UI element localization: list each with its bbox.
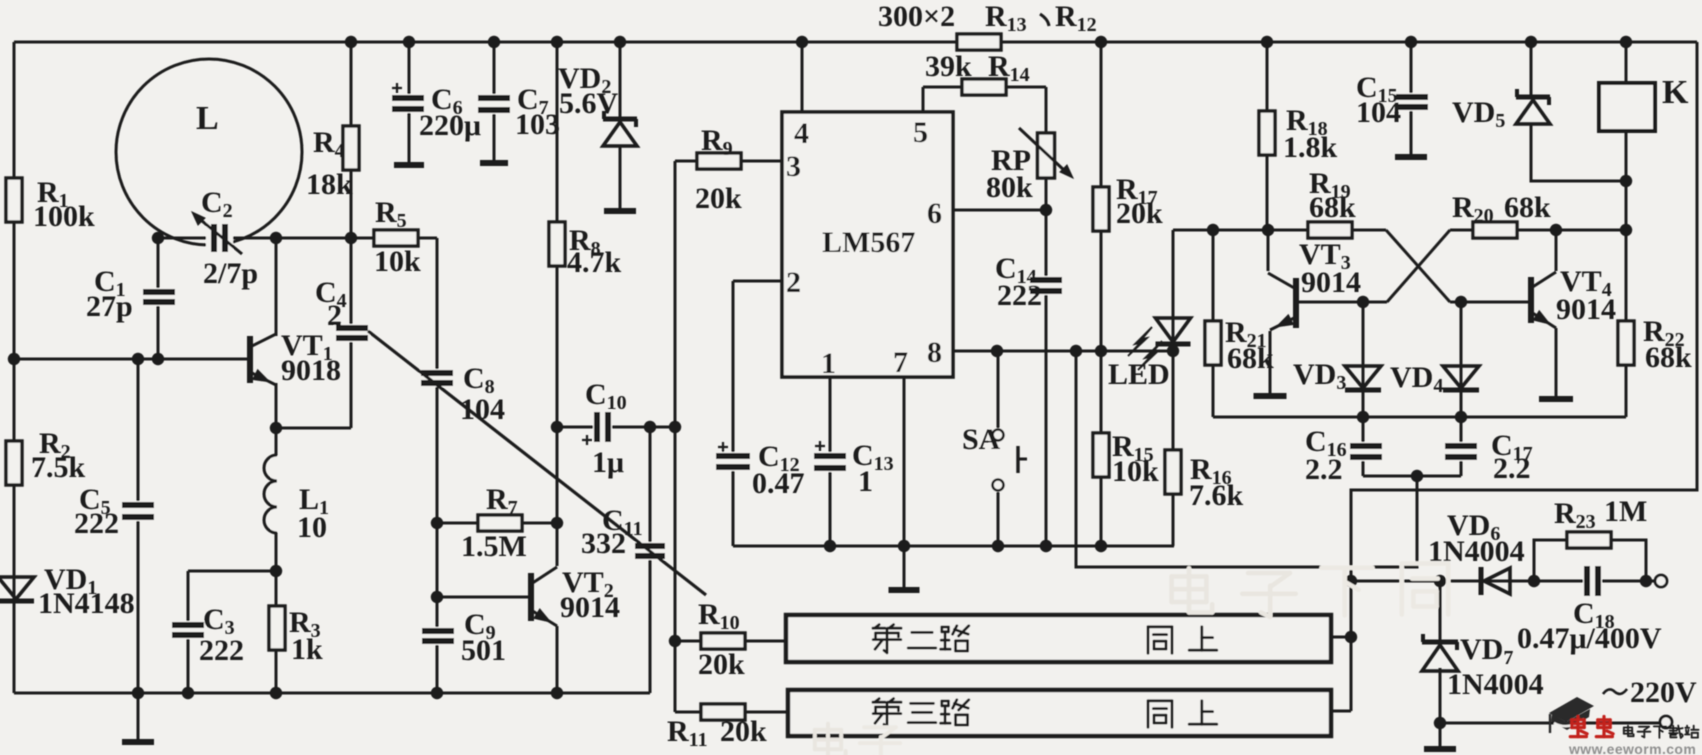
junction (1101,546) <box>1095 540 1107 552</box>
junction (158,359) <box>152 353 164 365</box>
wire pin8 line <box>953 350 1173 353</box>
diode VD3 <box>1345 366 1381 388</box>
wire VT3 collector riser <box>1267 230 1270 271</box>
svg-text:9014: 9014 <box>560 591 620 624</box>
svg-text:1: 1 <box>821 347 836 380</box>
junction (1046,210) <box>1040 204 1052 216</box>
svg-text:R12: R12 <box>1055 0 1097 36</box>
junction top rail x=1101 <box>1095 36 1107 48</box>
svg-text:222: 222 <box>199 634 244 667</box>
wire R4 C4 column <box>350 42 353 238</box>
svg-text:VD4: VD4 <box>1390 361 1443 397</box>
wire right edge return <box>1351 42 1697 711</box>
svg-text:0.47μ/400V: 0.47μ/400V <box>1517 622 1662 655</box>
wire C1 branch <box>157 238 160 359</box>
long gang line <box>368 331 706 595</box>
svg-text:SA: SA <box>962 423 1001 456</box>
svg-text:7.6k: 7.6k <box>1189 479 1244 512</box>
capacitor C13 electrolytic <box>812 452 848 472</box>
capacitor C5 <box>120 501 156 521</box>
capacitor C8 <box>419 369 455 387</box>
junction top rail x=620 <box>614 36 626 48</box>
junction (138,359) <box>132 353 144 365</box>
svg-text:5.6V: 5.6V <box>559 87 619 120</box>
capacitor C17 <box>1443 442 1479 461</box>
wire C17 drop <box>1460 417 1463 476</box>
ground VD7 <box>1424 746 1456 752</box>
junction (1101,351) <box>1095 345 1107 357</box>
resistor R7 <box>478 515 522 531</box>
svg-text:300×2: 300×2 <box>878 0 955 33</box>
junction (276,428) <box>270 422 282 434</box>
resistor R2 <box>6 441 22 485</box>
resistor R13 <box>957 34 1001 50</box>
junction (557,693) <box>551 687 563 699</box>
ic LM567 U1 <box>782 112 953 377</box>
wire pin2 to C12 <box>733 280 782 283</box>
capacitor C14 <box>1028 276 1064 295</box>
svg-text:VD5: VD5 <box>1452 96 1505 132</box>
svg-text:100k: 100k <box>33 200 95 233</box>
resistor R19 <box>1308 222 1352 238</box>
wire box2 stub <box>1331 636 1351 639</box>
junction top rail x=1626 <box>1620 36 1632 48</box>
wire pin1 to C13 <box>829 377 832 546</box>
svg-text:9018: 9018 <box>281 354 341 387</box>
svg-text:K: K <box>1662 74 1689 111</box>
wire SA column <box>997 351 1000 546</box>
junction (557,427) <box>551 421 563 433</box>
svg-text:C2: C2 <box>201 186 233 222</box>
svg-text:R9: R9 <box>701 124 733 160</box>
potentiometer RP <box>1038 133 1055 178</box>
junction (557,523) <box>551 517 563 529</box>
wire C8 C9 column <box>414 237 437 240</box>
wire VT2 collector riser <box>556 427 559 566</box>
diode VD6 <box>1479 567 1484 595</box>
wire VT2 emitter drop <box>556 626 559 693</box>
wire VT1 emitter to L1 <box>275 383 278 693</box>
junction (1534,581) <box>1528 575 1540 587</box>
svg-text:4: 4 <box>794 117 809 150</box>
capacitor C9 <box>420 627 456 645</box>
svg-text:8: 8 <box>927 336 942 369</box>
svg-text:R14: R14 <box>988 50 1030 86</box>
wire VT2 base line <box>437 596 531 599</box>
svg-text:2.2: 2.2 <box>1305 453 1343 486</box>
wire VD7 ground stub <box>1439 723 1442 747</box>
wire mains bottom line <box>1440 722 1660 725</box>
svg-text:R5: R5 <box>375 196 407 232</box>
junction (437,597) <box>431 591 443 603</box>
wire R9 R10 R11 column <box>674 161 677 712</box>
junction (1363,302) <box>1357 296 1369 308</box>
ground C7 <box>480 160 508 166</box>
junction (675,641) <box>669 635 681 647</box>
wire R20 right rail <box>1517 229 1626 232</box>
transistor VT3 <box>1293 278 1299 328</box>
resistor R15 <box>1093 433 1109 477</box>
svg-text:10: 10 <box>297 511 327 544</box>
wire left column <box>13 42 16 693</box>
junction top rail x=494 <box>488 36 500 48</box>
wire cross couple B <box>1299 301 1387 304</box>
junction (1556,230) <box>1550 224 1562 236</box>
wire ground bus center <box>733 545 1174 548</box>
capacitor C3 <box>170 621 206 639</box>
junction (998,546) <box>992 540 1004 552</box>
wire C5 branch <box>137 359 140 693</box>
ground bottom left <box>122 739 154 745</box>
junction (437,693) <box>431 687 443 699</box>
resistor R1 <box>6 178 22 222</box>
ground VT3 emitter <box>1254 393 1287 399</box>
svg-text:3: 3 <box>786 150 801 183</box>
svg-text:20k: 20k <box>695 182 742 215</box>
svg-text:332: 332 <box>581 527 626 560</box>
transistor VT2 <box>528 573 534 621</box>
diode VD1 <box>0 577 34 599</box>
wire cross couple A <box>1386 230 1450 302</box>
svg-text:R7: R7 <box>486 483 518 519</box>
junction (1268,230) <box>1262 224 1274 236</box>
wire VT4 collector riser <box>1555 230 1558 271</box>
svg-text:68k: 68k <box>1309 191 1356 224</box>
resistor R23 <box>1567 532 1611 548</box>
resistor R16 <box>1165 450 1181 494</box>
relay K <box>1599 83 1655 131</box>
inductor L1 <box>271 456 282 532</box>
junction (997,351) <box>991 345 1003 357</box>
capacitor C2 variable <box>206 222 233 254</box>
junction (1351,637) <box>1345 631 1357 643</box>
svg-text:1: 1 <box>858 465 873 498</box>
svg-text:68k: 68k <box>1504 191 1551 224</box>
wire flipflop left rail R19 <box>1173 229 1386 232</box>
svg-text:2: 2 <box>327 299 342 332</box>
junction (675,427) <box>669 421 681 433</box>
junction top rail x=1411 <box>1405 36 1417 48</box>
wire C11 riser <box>649 427 652 693</box>
wire output line VD6 <box>1351 580 1661 583</box>
wire R7 line <box>437 522 557 525</box>
svg-text:VD3: VD3 <box>1293 358 1346 394</box>
resistor R8 <box>549 222 565 266</box>
resistor R5 <box>374 230 418 246</box>
svg-text:7.5k: 7.5k <box>31 451 86 484</box>
junction (1076,351) <box>1070 345 1082 357</box>
capacitor C6 electrolytic <box>390 94 426 113</box>
led LED <box>1156 318 1191 342</box>
svg-text:68k: 68k <box>1227 342 1274 375</box>
svg-text:R13: R13 <box>985 0 1027 36</box>
svg-text:C10: C10 <box>585 378 627 414</box>
wire VT1 base line <box>14 358 250 361</box>
diode VD4 <box>1443 366 1479 388</box>
wire relay K column <box>1625 42 1628 83</box>
wire VT3 emitter ground drop <box>1269 331 1272 394</box>
wire ground stub pin7 <box>903 546 906 588</box>
svg-text:R20: R20 <box>1452 191 1494 227</box>
svg-text:9014: 9014 <box>1556 293 1616 326</box>
junction (188,693) <box>182 687 194 699</box>
junction (276,693) <box>270 687 282 699</box>
wire C6 branch <box>408 42 411 97</box>
wire R11 line <box>675 711 788 714</box>
wire pin8 to C16 C17 link <box>1076 351 1417 567</box>
wire emitter bias line <box>276 427 351 430</box>
wire R21 column <box>1212 230 1215 417</box>
svg-text:222: 222 <box>997 279 1042 312</box>
terminal output <box>1655 575 1667 587</box>
junction (1363,417) <box>1357 411 1369 423</box>
wire latch output line <box>1213 416 1626 419</box>
junction (1417,476) <box>1411 470 1423 482</box>
capacitor C18 <box>1583 564 1602 598</box>
svg-text:27p: 27p <box>86 290 133 323</box>
wire LED column <box>1172 230 1175 546</box>
wire VD2 branch <box>619 42 622 119</box>
wire RP column <box>1045 87 1048 210</box>
ground C15 <box>1395 154 1427 160</box>
svg-text:10k: 10k <box>374 245 421 278</box>
resistor R20 <box>1473 222 1517 238</box>
wire R18 column <box>1266 42 1269 230</box>
svg-text:6: 6 <box>927 197 942 230</box>
svg-text:4.7k: 4.7k <box>567 246 622 279</box>
wire VD5 branch <box>1530 42 1533 97</box>
capacitor C12 electrolytic <box>714 452 752 471</box>
zener diode VD5 <box>1516 95 1550 100</box>
junction (138,693) <box>132 687 144 699</box>
wire box3 stub <box>1333 710 1351 713</box>
junction (1213,230) <box>1207 224 1219 236</box>
wire C16 C17 bottom tie <box>1363 475 1461 478</box>
resistor R3 <box>269 606 285 650</box>
junction (14,359) <box>8 353 20 365</box>
wire R23 bypass loop <box>1534 540 1646 581</box>
resistor R9 <box>697 153 741 169</box>
wire pin5 to R14 <box>922 87 925 112</box>
junction (1646,581) <box>1640 575 1652 587</box>
wire tank line C2 <box>158 237 437 240</box>
channel box 3 <box>788 690 1331 736</box>
resistor R17 <box>1093 187 1109 231</box>
junction (158,238) <box>152 232 164 244</box>
capacitor C4 <box>334 324 370 342</box>
junction (1046,546) <box>1040 540 1052 552</box>
junction (1440,581) <box>1434 575 1446 587</box>
loop antenna L <box>116 59 302 245</box>
resistor R11 <box>701 704 745 720</box>
wire pin4 drop <box>801 42 804 112</box>
svg-text:104: 104 <box>1356 96 1401 129</box>
resistor R10 <box>701 633 745 649</box>
svg-text:5: 5 <box>913 116 928 149</box>
svg-text:501: 501 <box>461 634 506 667</box>
svg-text:9014: 9014 <box>1301 266 1361 299</box>
junction (437,523) <box>431 517 443 529</box>
svg-text:7: 7 <box>893 346 908 379</box>
junction (1626,181) <box>1620 175 1632 187</box>
svg-text:2: 2 <box>786 266 801 299</box>
wire R10 line <box>675 640 786 643</box>
capacitor C1 <box>141 288 177 306</box>
svg-text:80k: 80k <box>986 171 1033 204</box>
zener diode VD2 <box>603 117 637 122</box>
svg-text:1k: 1k <box>291 633 323 666</box>
svg-text:2.2: 2.2 <box>1493 452 1531 485</box>
svg-text:20k: 20k <box>698 648 745 681</box>
svg-text:0.47: 0.47 <box>752 467 805 500</box>
svg-text:220V: 220V <box>1630 676 1697 709</box>
wire R22 bottom corner <box>1625 365 1628 417</box>
junction top rail x=802 <box>796 36 808 48</box>
wire bottom ground bus left <box>14 692 650 695</box>
wire pin3 line with R9 <box>675 160 782 163</box>
junction (1351,581) <box>1345 575 1357 587</box>
svg-text:LED: LED <box>1108 358 1170 391</box>
wire pin7 drop <box>903 377 906 546</box>
zener diode VD7 <box>1422 640 1458 645</box>
wire VD3 branch <box>1362 302 1365 417</box>
capacitor C7 <box>476 94 512 114</box>
svg-text:103: 103 <box>515 108 560 141</box>
transistor VT1 <box>247 336 253 383</box>
junction top rail x=557 <box>551 36 563 48</box>
ground C6 <box>394 162 424 168</box>
wire C7 branch <box>493 42 496 97</box>
terminal mains <box>1660 716 1672 728</box>
svg-text:LM567: LM567 <box>822 226 915 259</box>
junction (351,238) <box>345 232 357 244</box>
wire VD4 branch <box>1460 302 1463 417</box>
junction (904,546) <box>898 540 910 552</box>
svg-text:1N4004: 1N4004 <box>1447 668 1544 701</box>
ground VT4 emitter <box>1539 396 1573 402</box>
junction (276,571) <box>270 565 282 577</box>
capacitor C11 <box>633 542 667 560</box>
junction top rail x=351 <box>345 36 357 48</box>
svg-text:R23: R23 <box>1554 497 1596 533</box>
junction (650,427) <box>644 421 656 433</box>
capacitor C15 <box>1394 93 1430 111</box>
resistor R18 <box>1259 111 1275 155</box>
wire C10 line <box>557 426 675 429</box>
junction (830,546) <box>824 540 836 552</box>
junction (276,238) <box>270 232 282 244</box>
svg-text:18k: 18k <box>306 168 353 201</box>
channel box 2 <box>786 615 1331 662</box>
junction (1626,230) <box>1620 224 1632 236</box>
svg-text:10k: 10k <box>1112 455 1159 488</box>
pushbutton SA <box>989 428 1007 492</box>
wire R15 column <box>1100 42 1103 546</box>
wire ground stub bottom left <box>137 693 140 740</box>
svg-text:1.5M: 1.5M <box>461 530 527 563</box>
junction (1173,351) <box>1167 345 1179 357</box>
wire pin6 line <box>953 209 1046 212</box>
wire C14 column <box>1045 210 1048 546</box>
svg-text:VD7: VD7 <box>1460 633 1513 669</box>
resistor R14 <box>962 79 1006 95</box>
wire top supply rail <box>14 41 1697 44</box>
wire C3 branch <box>187 571 190 693</box>
svg-text:39k: 39k <box>925 50 972 83</box>
junction (1461,417) <box>1455 411 1467 423</box>
resistor R21 <box>1205 321 1221 365</box>
wire VD7 branch <box>1439 581 1442 642</box>
svg-text:2/7p: 2/7p <box>203 257 258 290</box>
ground pin7 <box>889 587 920 593</box>
wire VT1 collector <box>275 238 278 336</box>
svg-text:1N4148: 1N4148 <box>38 587 135 620</box>
wire C16 drop <box>1362 417 1365 476</box>
svg-text:222: 222 <box>74 507 119 540</box>
resistor R22 <box>1618 321 1634 365</box>
svg-text:www.eeworm.com: www.eeworm.com <box>1568 741 1696 755</box>
capacitor C16 <box>1348 442 1384 461</box>
junction top rail x=409 <box>403 36 415 48</box>
junction top rail x=1267 <box>1261 36 1273 48</box>
junction (1440,723) <box>1434 717 1446 729</box>
svg-text:68k: 68k <box>1645 341 1692 374</box>
svg-text:R4: R4 <box>313 126 345 162</box>
transistor VT4 <box>1528 277 1534 323</box>
svg-text:20k: 20k <box>720 715 767 748</box>
svg-text:104: 104 <box>460 393 505 426</box>
ground VD2 <box>604 208 636 214</box>
svg-text:1M: 1M <box>1604 495 1647 528</box>
resistor R4 <box>343 126 359 170</box>
capacitor C10 electrolytic <box>593 410 612 444</box>
wire C15 branch <box>1410 42 1413 95</box>
junction (1461,302) <box>1455 296 1467 308</box>
svg-text:R10: R10 <box>698 598 740 634</box>
wire L1 tap line <box>188 570 276 573</box>
svg-text:220μ: 220μ <box>419 109 481 142</box>
svg-text:L: L <box>196 100 219 137</box>
wire VT4 emitter ground drop <box>1555 328 1558 397</box>
junction top rail x=1531 <box>1525 36 1537 48</box>
svg-text:1.8k: 1.8k <box>1283 131 1338 164</box>
wire R8 column <box>556 42 559 427</box>
svg-text:1μ: 1μ <box>592 446 624 479</box>
svg-text:20k: 20k <box>1116 197 1163 230</box>
